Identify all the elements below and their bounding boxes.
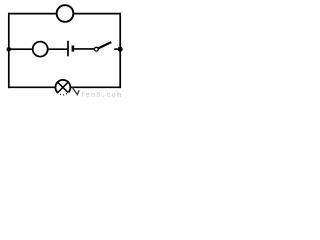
lamp L1: bulb circle <box>55 80 70 95</box>
wire: middle, meter to battery <box>48 48 69 50</box>
switch S1: pivot circle <box>94 47 98 51</box>
wire: middle, junction to meter <box>9 48 33 50</box>
wire: top right segment <box>73 13 121 15</box>
svg-text:fen5.com: fen5.com <box>81 92 123 100</box>
switch S1: open blade <box>98 42 111 48</box>
wire: right vertical <box>119 13 121 88</box>
meter M1 (top circle) <box>57 5 74 22</box>
battery cell: short negative plate <box>72 46 75 52</box>
meter M2 (middle circle) <box>33 42 48 57</box>
node: right junction <box>118 47 123 52</box>
wire: bottom right segment <box>70 86 121 88</box>
wire: middle, switch to right junction <box>114 48 120 50</box>
wire: middle, battery to switch <box>74 48 95 50</box>
watermark tick mark <box>72 88 79 95</box>
lamp L1: cross diagonal 1 <box>58 82 68 92</box>
wire: bottom left segment <box>8 86 56 88</box>
battery cell: long positive plate <box>67 41 69 57</box>
wire: left vertical <box>8 13 10 88</box>
node: left junction <box>7 47 12 52</box>
wire: top left segment <box>8 13 57 15</box>
lamp L1: cross diagonal 2 <box>58 82 68 92</box>
lamp L1: bottom arc faded by watermark band <box>57 92 68 94</box>
